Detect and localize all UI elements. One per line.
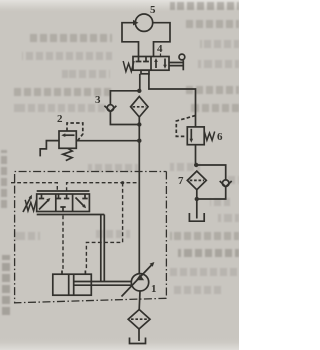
valve 4 right square down arrow (164, 59, 166, 67)
valve 6 square (187, 127, 204, 145)
pump 1 triangle (136, 274, 144, 280)
suction filter diamond (128, 310, 150, 330)
wire to check valve 3 (110, 91, 139, 105)
relief valve 2 arrow (64, 134, 75, 136)
check valve 7a ball (222, 180, 229, 187)
pilot net dashed right to riser (67, 183, 140, 191)
wire check valve 7a branch bottom (197, 187, 226, 199)
node A junction dot (137, 89, 141, 93)
svg-text:5: 5 (150, 4, 156, 16)
enclosure dash-dot box (15, 172, 167, 183)
V1 spring (25, 200, 36, 211)
check valve 3 ball (107, 105, 114, 112)
tank T2 (130, 338, 146, 344)
wire valve 6 to node D (195, 145, 197, 165)
valve 6 pilot dashed (176, 116, 195, 137)
filter 7 element dashed (190, 179, 204, 181)
valve 6 spring (204, 132, 214, 141)
svg-text:3: 3 (95, 94, 101, 106)
servo cylinder stubs (62, 271, 85, 275)
wire node E to tank (196, 199, 198, 219)
relief valve 2 drain wire (40, 141, 59, 157)
valve 4 roller actuator (169, 63, 183, 66)
control valve V1 linkage bar (37, 214, 105, 216)
ghost bleed-through text lines (30, 34, 112, 42)
V1 middle square blocked ports (56, 194, 61, 199)
svg-text:2: 2 (57, 113, 63, 125)
pilot dashed valve bottom to cylinder left stub (62, 216, 64, 271)
svg-text:1: 1 (151, 283, 157, 295)
relief valve 2 pilot dashed (67, 123, 83, 142)
suction wire pump to filter (139, 291, 140, 341)
valve 4 left square blocked ports (136, 57, 142, 62)
wire relief 2 to riser (76, 140, 139, 142)
wire loop right of 5 (153, 23, 170, 57)
pump 1 variable arrow (122, 264, 153, 297)
control valve V1 top cover line (37, 190, 90, 192)
servo cylinder barrel (53, 274, 92, 295)
relief valve 2 spring (63, 148, 72, 160)
wire valve4 to junction A (139, 74, 141, 91)
svg-text:4: 4 (157, 43, 163, 55)
pilot branch dashed to cylinder right stub (86, 183, 122, 271)
V1 adjust arrow (23, 197, 31, 213)
wire check valve 3 to node B (110, 112, 139, 125)
wire filter 7 to node E (196, 190, 198, 199)
control valve V1 body (37, 194, 90, 212)
pump 1 circle (131, 274, 148, 291)
node D junction dot (194, 163, 198, 167)
node C junction dot (137, 139, 141, 143)
component 5 circle (flow indicator) (135, 14, 152, 31)
node F pilot junction dot (121, 181, 124, 184)
main riser wire (138, 117, 140, 274)
valve 4 bottom port stub box (141, 70, 149, 74)
svg-text:7: 7 (178, 175, 184, 187)
feedback link double wire (101, 215, 105, 282)
servo cylinder rod double wire (74, 282, 132, 286)
wire loop left of 5 (122, 23, 139, 57)
wire valve4 to valve 6 branch (149, 74, 196, 127)
svg-text:6: 6 (217, 131, 223, 143)
valve 6 arrow (190, 129, 192, 141)
node E junction dot (195, 197, 199, 201)
tank T1 (189, 213, 204, 221)
V1 right square blocked port (82, 194, 87, 199)
pilot net dashed left (11, 183, 57, 191)
V1 left square arrow (39, 200, 49, 210)
V1 right square arrow (76, 198, 85, 207)
component 5 inlet arrowhead (133, 20, 139, 26)
node B junction dot (137, 122, 141, 126)
suction filter element dashed (131, 318, 147, 320)
relief valve 2 square (59, 131, 76, 148)
check valve 7a seat (220, 181, 232, 187)
valve 4 body (133, 57, 169, 71)
check valve 3 seat (104, 106, 116, 112)
filter 3a diamond (131, 97, 148, 118)
filter 3a element dashed (133, 106, 147, 108)
servo cylinder piston (69, 274, 74, 295)
V1 left square blocked port (39, 194, 44, 199)
wire check valve 7a branch top (196, 165, 226, 180)
filter 7 diamond (187, 171, 206, 190)
valve 4 right square up arrow (155, 60, 157, 68)
valve 4 spring (123, 61, 134, 72)
